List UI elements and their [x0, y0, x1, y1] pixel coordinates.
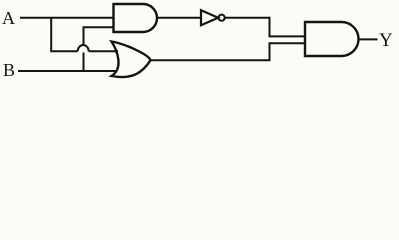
wire B to OR bottom input [18, 70, 117, 72]
wire after hop into OR gate [89, 50, 118, 52]
wire B branch below hop [83, 53, 85, 72]
svg-text:A: A [2, 8, 15, 28]
wire AND1 output to inverter [157, 17, 201, 19]
and-gate U4 [305, 22, 359, 56]
inverter U2 triangle [201, 10, 218, 25]
wire A to AND1 top input [20, 17, 114, 19]
wire hop over B branch [78, 45, 89, 51]
or-gate U3 [112, 42, 151, 78]
wire AND2 output to Y [359, 38, 378, 40]
wire down to AND2 top input [270, 17, 306, 37]
svg-text:B: B [3, 60, 15, 80]
inverter U2 bubble [219, 15, 225, 21]
wire OR output up to AND2 bottom input [150, 43, 305, 60]
wire B branch up with corner to AND1 lower input [84, 27, 114, 45]
wire A branch vertical [50, 18, 52, 52]
wire inverter output [225, 17, 270, 19]
wire A branch horizontal to OR top input [50, 50, 77, 52]
svg-text:Y: Y [379, 30, 393, 51]
and-gate U1 [114, 4, 158, 32]
